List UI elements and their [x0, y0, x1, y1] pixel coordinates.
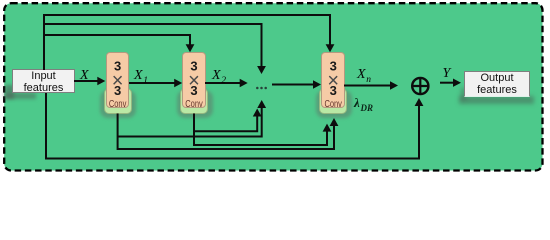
- svg-text:X: X: [356, 67, 366, 82]
- svg-text:Y: Y: [443, 66, 453, 81]
- svg-text:Conv: Conv: [324, 99, 342, 110]
- svg-text:×: ×: [327, 70, 339, 92]
- svg-text:×: ×: [112, 70, 124, 92]
- svg-text:λ: λ: [353, 95, 360, 110]
- svg-text:×: ×: [188, 70, 200, 92]
- svg-text:X: X: [211, 68, 221, 83]
- svg-text:Conv: Conv: [185, 99, 203, 110]
- svg-text:1: 1: [143, 76, 148, 86]
- svg-text:2: 2: [221, 76, 226, 86]
- svg-text:DR: DR: [360, 103, 374, 113]
- svg-text:Conv: Conv: [109, 99, 127, 110]
- svg-text:X: X: [133, 68, 143, 83]
- svg-text:n: n: [366, 75, 371, 85]
- svg-text:X: X: [79, 68, 89, 83]
